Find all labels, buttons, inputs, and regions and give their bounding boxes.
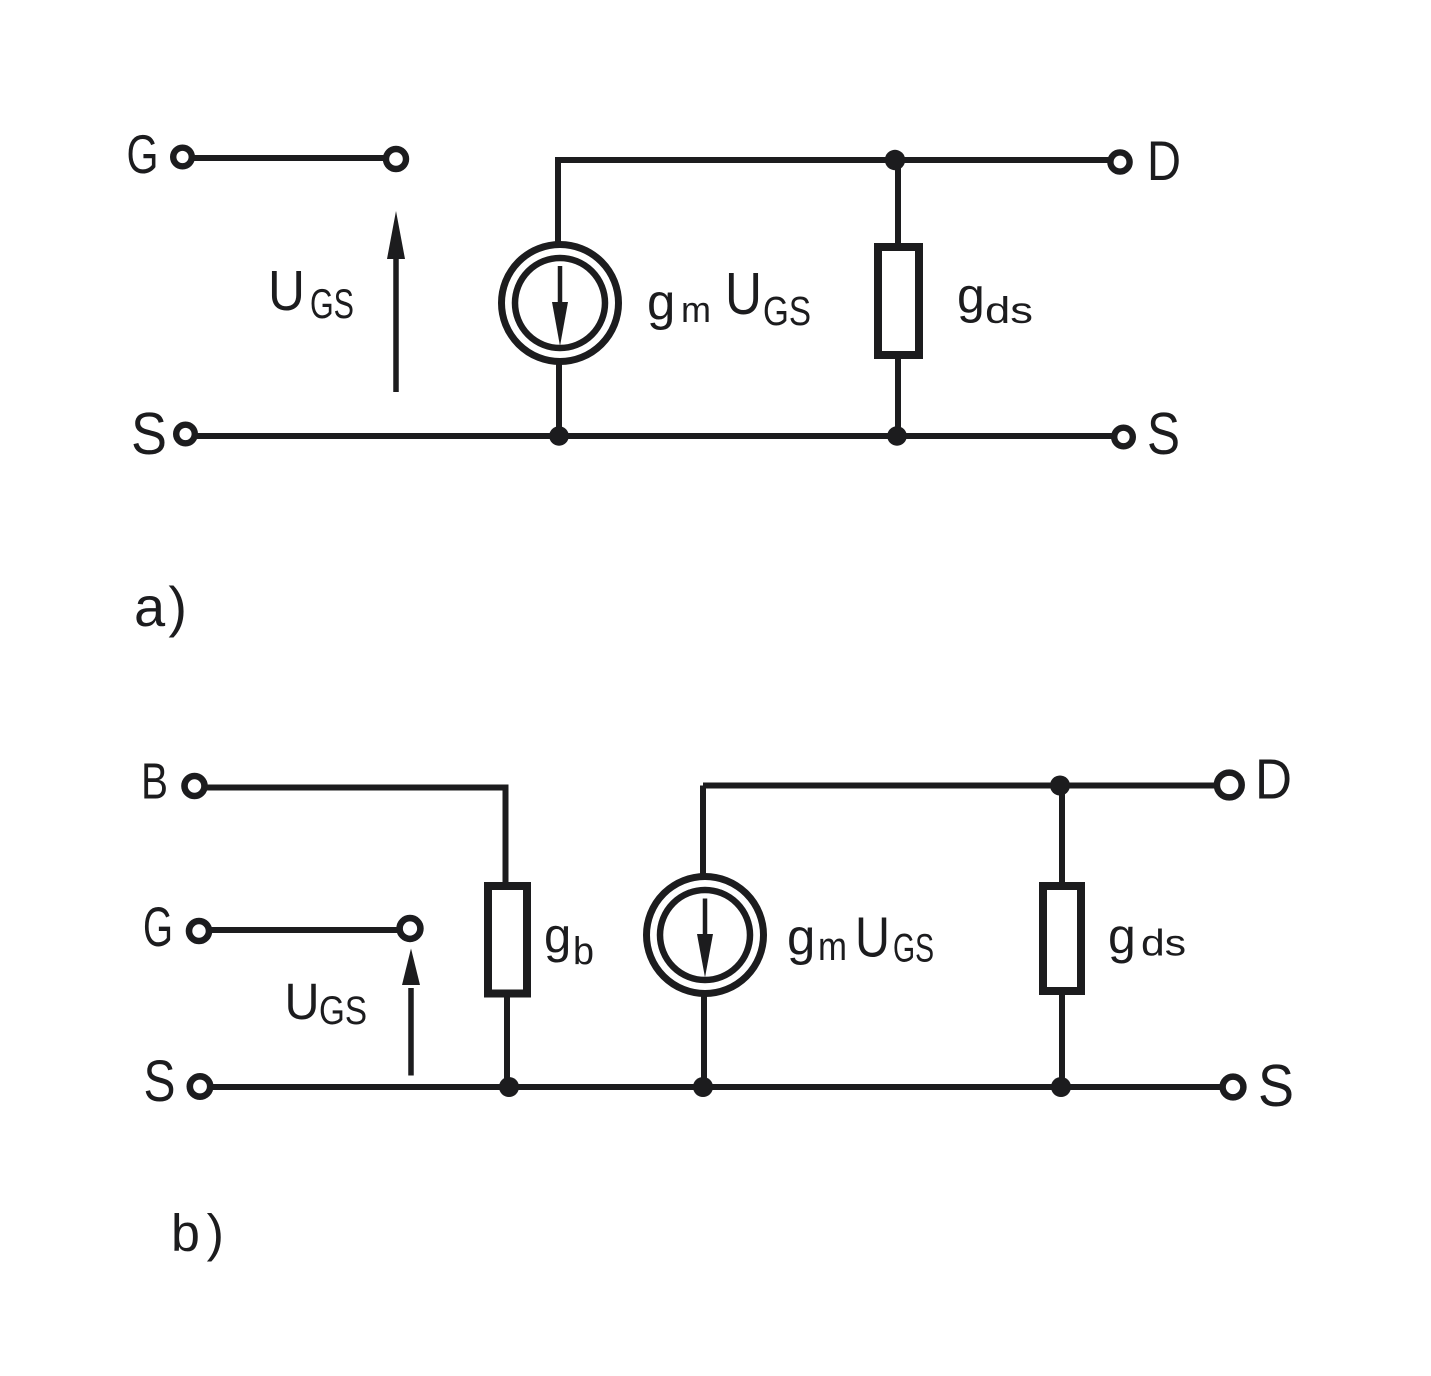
- terminal B open circle (circuit b): [185, 776, 205, 796]
- svg-text:g: g: [787, 909, 815, 966]
- junction bottom rail below source (circuit a): [549, 426, 569, 446]
- voltage arrow U_GS (circuit a): [387, 211, 405, 392]
- wire gate G to internal node (circuit b): [211, 927, 398, 933]
- wire top rail (circuit b): [703, 783, 1214, 789]
- wire bottom rail (circuit b): [212, 1084, 1221, 1090]
- svg-text:B: B: [141, 753, 168, 810]
- resistor g_ds (circuit a): [878, 247, 919, 355]
- current source g_m U_GS double circle (circuit a): [502, 245, 619, 362]
- svg-text:S: S: [1258, 1053, 1294, 1119]
- junction bottom rail below g_ds (circuit b): [1051, 1077, 1071, 1097]
- terminal G open circle (circuit b): [189, 921, 209, 941]
- voltage arrow U_GS (circuit b): [402, 949, 420, 1076]
- current source g_m U_GS double circle (circuit b): [647, 877, 764, 994]
- node open circle gate internal (circuit a): [386, 149, 406, 169]
- svg-text:U: U: [855, 906, 890, 970]
- terminal D open circle (circuit b): [1217, 773, 1242, 798]
- svg-text:U: U: [285, 973, 320, 1030]
- wire bottom rail (circuit a): [196, 433, 1112, 439]
- label g_ds (circuit a): [957, 268, 1033, 332]
- svg-text:D: D: [1147, 129, 1181, 192]
- terminal S right open circle (circuit b): [1223, 1077, 1244, 1098]
- junction bottom rail below g_ds (circuit a): [887, 426, 907, 446]
- svg-text:b): b): [171, 1205, 224, 1263]
- terminal S left open circle (circuit b): [190, 1076, 210, 1096]
- svg-text:U: U: [268, 259, 305, 323]
- svg-text:GS: GS: [763, 288, 811, 334]
- label g_ds (circuit b): [1108, 908, 1186, 964]
- label U_GS (circuit a): [268, 259, 354, 327]
- junction top rail at g_ds (circuit b): [1050, 776, 1070, 796]
- svg-text:m: m: [818, 925, 847, 969]
- svg-text:GS: GS: [893, 927, 934, 971]
- label U_GS (circuit b): [285, 973, 368, 1033]
- svg-text:ds: ds: [1141, 923, 1186, 964]
- svg-text:g: g: [647, 274, 675, 331]
- wire resistor g_b to bottom rail (circuit b): [504, 994, 510, 1091]
- svg-text:G: G: [143, 895, 173, 958]
- label g_m U_GS (circuit a): [647, 261, 811, 334]
- junction top rail at g_ds (circuit a): [885, 150, 905, 170]
- label g_m U_GS (circuit b): [787, 906, 934, 971]
- wire top rail to current source (circuit b): [700, 786, 706, 879]
- terminal S left open circle (circuit a): [176, 425, 195, 444]
- junction bottom rail below source (circuit b): [693, 1077, 713, 1097]
- svg-text:g: g: [1108, 908, 1136, 964]
- wire top rail (circuit a): [558, 160, 1110, 244]
- resistor g_b (circuit b): [488, 886, 527, 994]
- svg-text:D: D: [1255, 748, 1292, 812]
- svg-text:g: g: [544, 910, 571, 964]
- wire resistor g_ds to bottom rail (circuit b): [1059, 991, 1065, 1090]
- svg-text:GS: GS: [319, 989, 367, 1033]
- terminal S right open circle (circuit a): [1114, 428, 1133, 447]
- wire top rail to resistor g_ds (circuit b): [1059, 786, 1065, 887]
- junction bottom rail below g_b (circuit b): [499, 1077, 519, 1097]
- wire top rail to resistor g_ds (circuit a): [895, 160, 901, 247]
- label g_b (circuit b): [544, 910, 594, 974]
- svg-text:g: g: [957, 268, 985, 324]
- svg-text:m: m: [681, 289, 711, 330]
- wire B to resistor g_b (circuit b): [206, 788, 506, 887]
- svg-text:ds: ds: [985, 290, 1033, 331]
- svg-text:U: U: [725, 261, 762, 327]
- svg-text:a): a): [134, 575, 187, 638]
- resistor g_ds (circuit b): [1043, 886, 1081, 991]
- wire resistor g_ds to bottom rail (circuit a): [895, 355, 901, 437]
- svg-text:S: S: [144, 1049, 176, 1114]
- node open circle gate internal (circuit b): [400, 918, 421, 939]
- svg-text:S: S: [1147, 401, 1180, 467]
- svg-text:b: b: [573, 931, 594, 974]
- wire current source to bottom rail (circuit a): [556, 362, 562, 437]
- svg-text:S: S: [131, 401, 167, 467]
- svg-text:GS: GS: [310, 280, 354, 327]
- terminal G open circle (circuit a): [173, 148, 192, 167]
- wire current source to bottom rail (circuit b): [701, 993, 707, 1090]
- terminal D open circle (circuit a): [1110, 152, 1129, 171]
- svg-text:G: G: [127, 123, 159, 185]
- wire gate G to internal node (circuit a): [194, 155, 386, 161]
